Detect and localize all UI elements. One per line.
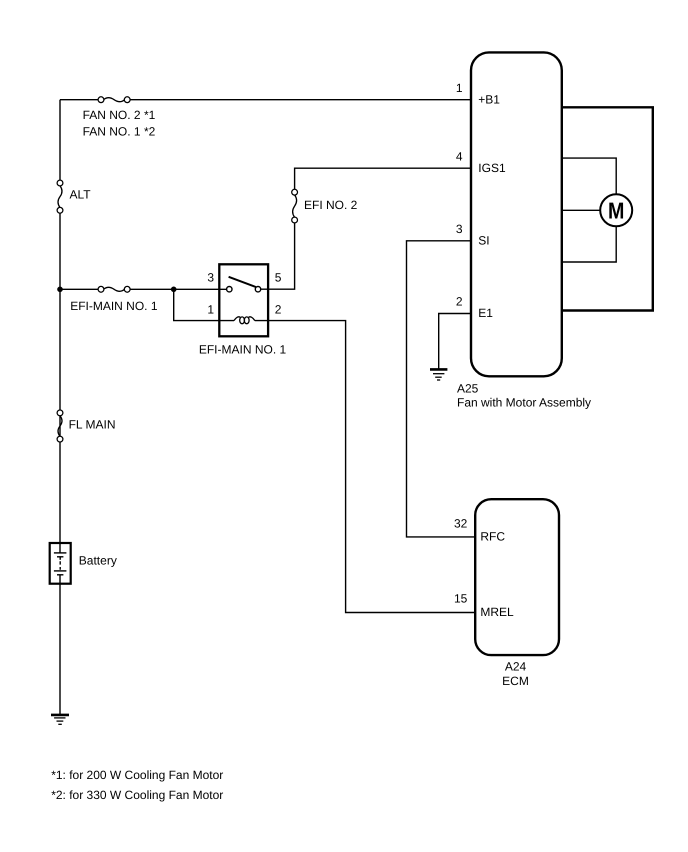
- fuse FL MAIN bottom terminal: [57, 436, 63, 442]
- wire EFI-MAIN NO. 1 left segment: [60, 288, 101, 290]
- relay contact pin 5: [255, 287, 260, 292]
- svg-text:A24: A24: [505, 659, 527, 673]
- battery bottom stub: [59, 575, 61, 584]
- relay coil right hump: [249, 317, 255, 321]
- svg-text:IGS1: IGS1: [478, 161, 506, 175]
- wire relay pin 5 to EFI NO. 2 fuse: [258, 220, 295, 289]
- ground symbol E1: [430, 369, 447, 380]
- svg-text:A25: A25: [457, 381, 479, 395]
- svg-text:3: 3: [456, 222, 463, 236]
- svg-text:Fan with Motor Assembly: Fan with Motor Assembly: [457, 395, 591, 409]
- wire EFI NO. 2 fuse to IGS1: [295, 168, 471, 192]
- fuse FAN NO. 2 / FAN NO. 1 right terminal: [124, 97, 130, 103]
- svg-text:SI: SI: [478, 234, 489, 248]
- svg-text:ALT: ALT: [70, 188, 92, 202]
- wire E1 to ground: [439, 314, 471, 370]
- fuse ALT top terminal: [57, 180, 63, 186]
- svg-text:M: M: [608, 198, 624, 224]
- wire motor middle: [562, 209, 600, 211]
- svg-text:1: 1: [207, 302, 214, 316]
- relay switch blade: [229, 277, 256, 287]
- svg-text:EFI NO. 2: EFI NO. 2: [304, 198, 358, 212]
- fuse EFI-MAIN NO. 1 wavy element: [104, 287, 125, 291]
- svg-text:15: 15: [454, 592, 468, 606]
- svg-text:4: 4: [456, 149, 463, 163]
- svg-text:RFC: RFC: [480, 530, 505, 544]
- ground symbol left bus: [51, 715, 69, 724]
- junction dot at relay coil branch: [171, 287, 177, 293]
- wire +B1 top horizontal right segment: [127, 99, 471, 101]
- svg-text:3: 3: [207, 271, 214, 285]
- battery plate short 2: [57, 574, 63, 576]
- svg-text:FL MAIN: FL MAIN: [69, 418, 116, 432]
- svg-text:MREL: MREL: [480, 605, 514, 619]
- battery plate long 1: [54, 552, 67, 554]
- connector A24 ECM outline: [475, 499, 559, 655]
- battery top lead: [59, 543, 61, 553]
- fuse FL MAIN top terminal: [57, 410, 63, 416]
- motor M1 circle: [600, 194, 632, 226]
- svg-text:FAN NO. 1 *2: FAN NO. 1 *2: [83, 124, 156, 138]
- fuse EFI NO. 2 bottom terminal: [292, 217, 298, 223]
- battery mid stub 1: [59, 557, 61, 560]
- svg-text:Battery: Battery: [79, 554, 117, 568]
- wire +B1 top horizontal left segment: [60, 99, 101, 101]
- svg-text:1: 1: [456, 81, 463, 95]
- connector A25 Fan with Motor Assembly outline: [471, 52, 562, 376]
- fuse FAN NO. 2 / FAN NO. 1 left terminal: [98, 97, 104, 103]
- svg-text:2: 2: [275, 302, 282, 316]
- fuse EFI-MAIN NO. 1 right terminal: [124, 286, 130, 292]
- svg-text:2: 2: [456, 295, 463, 309]
- wire SI to RFC: [407, 241, 476, 537]
- battery dashed center: [59, 561, 61, 570]
- svg-text:*1: for 200 W Cooling Fan Moto: *1: for 200 W Cooling Fan Motor: [51, 768, 223, 782]
- wire left vertical bus lower: [59, 584, 61, 714]
- fuse EFI-MAIN NO. 1 left terminal: [98, 286, 104, 292]
- fuse FAN NO. 2 / FAN NO. 1 wavy element: [104, 98, 125, 102]
- svg-text:EFI-MAIN NO. 1: EFI-MAIN NO. 1: [70, 299, 158, 313]
- svg-text:EFI-MAIN NO. 1: EFI-MAIN NO. 1: [199, 342, 287, 356]
- svg-text:32: 32: [454, 517, 468, 531]
- svg-text:FAN NO. 2 *1: FAN NO. 2 *1: [83, 108, 156, 122]
- fuse ALT wavy element: [58, 186, 62, 208]
- junction dot at left bus / EFI-MAIN NO. 1: [57, 287, 63, 293]
- svg-text:+B1: +B1: [478, 92, 500, 106]
- fuse EFI NO. 2 wavy element: [293, 195, 297, 217]
- wire left vertical bus upper: [59, 100, 61, 183]
- wire motor feed lower: [562, 226, 616, 262]
- battery box: [50, 543, 71, 584]
- wire motor feed upper: [562, 158, 616, 194]
- fuse FL MAIN wavy element: [58, 416, 62, 437]
- wire EFI-MAIN NO. 1 right segment: [127, 288, 229, 290]
- svg-text:E1: E1: [478, 306, 493, 320]
- battery plate short 1: [57, 556, 63, 558]
- wire relay pin 2 to MREL: [255, 321, 475, 613]
- fuse EFI NO. 2 top terminal: [292, 189, 298, 195]
- svg-text:5: 5: [275, 271, 282, 285]
- wire relay coil branch from junction: [174, 289, 234, 320]
- relay coil loop 2: [244, 317, 249, 324]
- svg-text:ECM: ECM: [502, 674, 529, 688]
- battery plate long 2: [54, 570, 67, 572]
- fuse ALT bottom terminal: [57, 207, 63, 213]
- wire left vertical bus middle: [59, 210, 61, 543]
- relay coil loop 1: [240, 317, 245, 324]
- relay contact pin 3: [227, 287, 232, 292]
- relay EFI-MAIN NO. 1 box: [219, 264, 268, 336]
- motor housing outline: [562, 107, 653, 310]
- svg-text:*2: for 330 W Cooling Fan Moto: *2: for 330 W Cooling Fan Motor: [51, 788, 223, 802]
- relay coil left hump: [234, 317, 240, 321]
